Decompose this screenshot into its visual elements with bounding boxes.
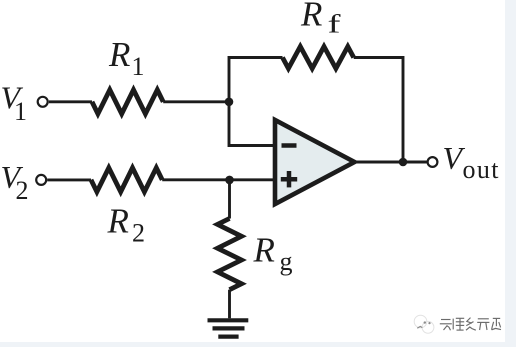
svg-text:2: 2: [16, 176, 29, 205]
svg-text:R: R: [108, 35, 130, 74]
svg-text:out: out: [463, 155, 500, 184]
svg-text:1: 1: [132, 52, 145, 81]
svg-text:R: R: [253, 231, 275, 270]
svg-text:1: 1: [14, 97, 27, 126]
svg-text:R: R: [107, 202, 129, 241]
svg-text:2: 2: [132, 219, 145, 248]
svg-text:g: g: [280, 247, 293, 276]
svg-text:f: f: [328, 10, 341, 39]
svg-text:R: R: [300, 0, 322, 34]
